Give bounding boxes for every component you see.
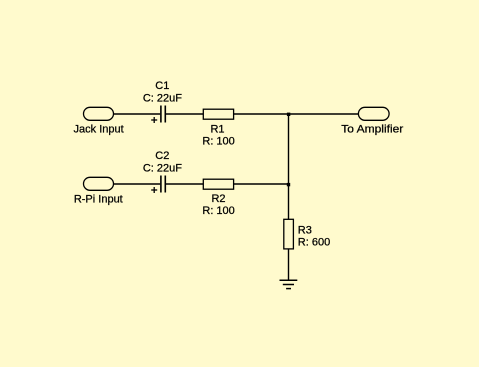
svg-text:Jack Input: Jack Input	[74, 123, 124, 135]
svg-text:R3: R3	[298, 224, 312, 236]
svg-text:C2: C2	[155, 150, 169, 162]
svg-text:C: 22uF: C: 22uF	[143, 162, 182, 174]
svg-text:C1: C1	[155, 80, 169, 92]
svg-text:R1: R1	[210, 123, 224, 135]
svg-text:C: 22uF: C: 22uF	[143, 92, 182, 104]
svg-text:To Amplifier: To Amplifier	[341, 123, 403, 135]
svg-text:R: 600: R: 600	[298, 236, 330, 248]
svg-text:R: 100: R: 100	[202, 205, 234, 217]
svg-text:R: 100: R: 100	[202, 135, 234, 147]
svg-text:R2: R2	[211, 193, 225, 205]
svg-text:R-Pi Input: R-Pi Input	[74, 193, 123, 205]
